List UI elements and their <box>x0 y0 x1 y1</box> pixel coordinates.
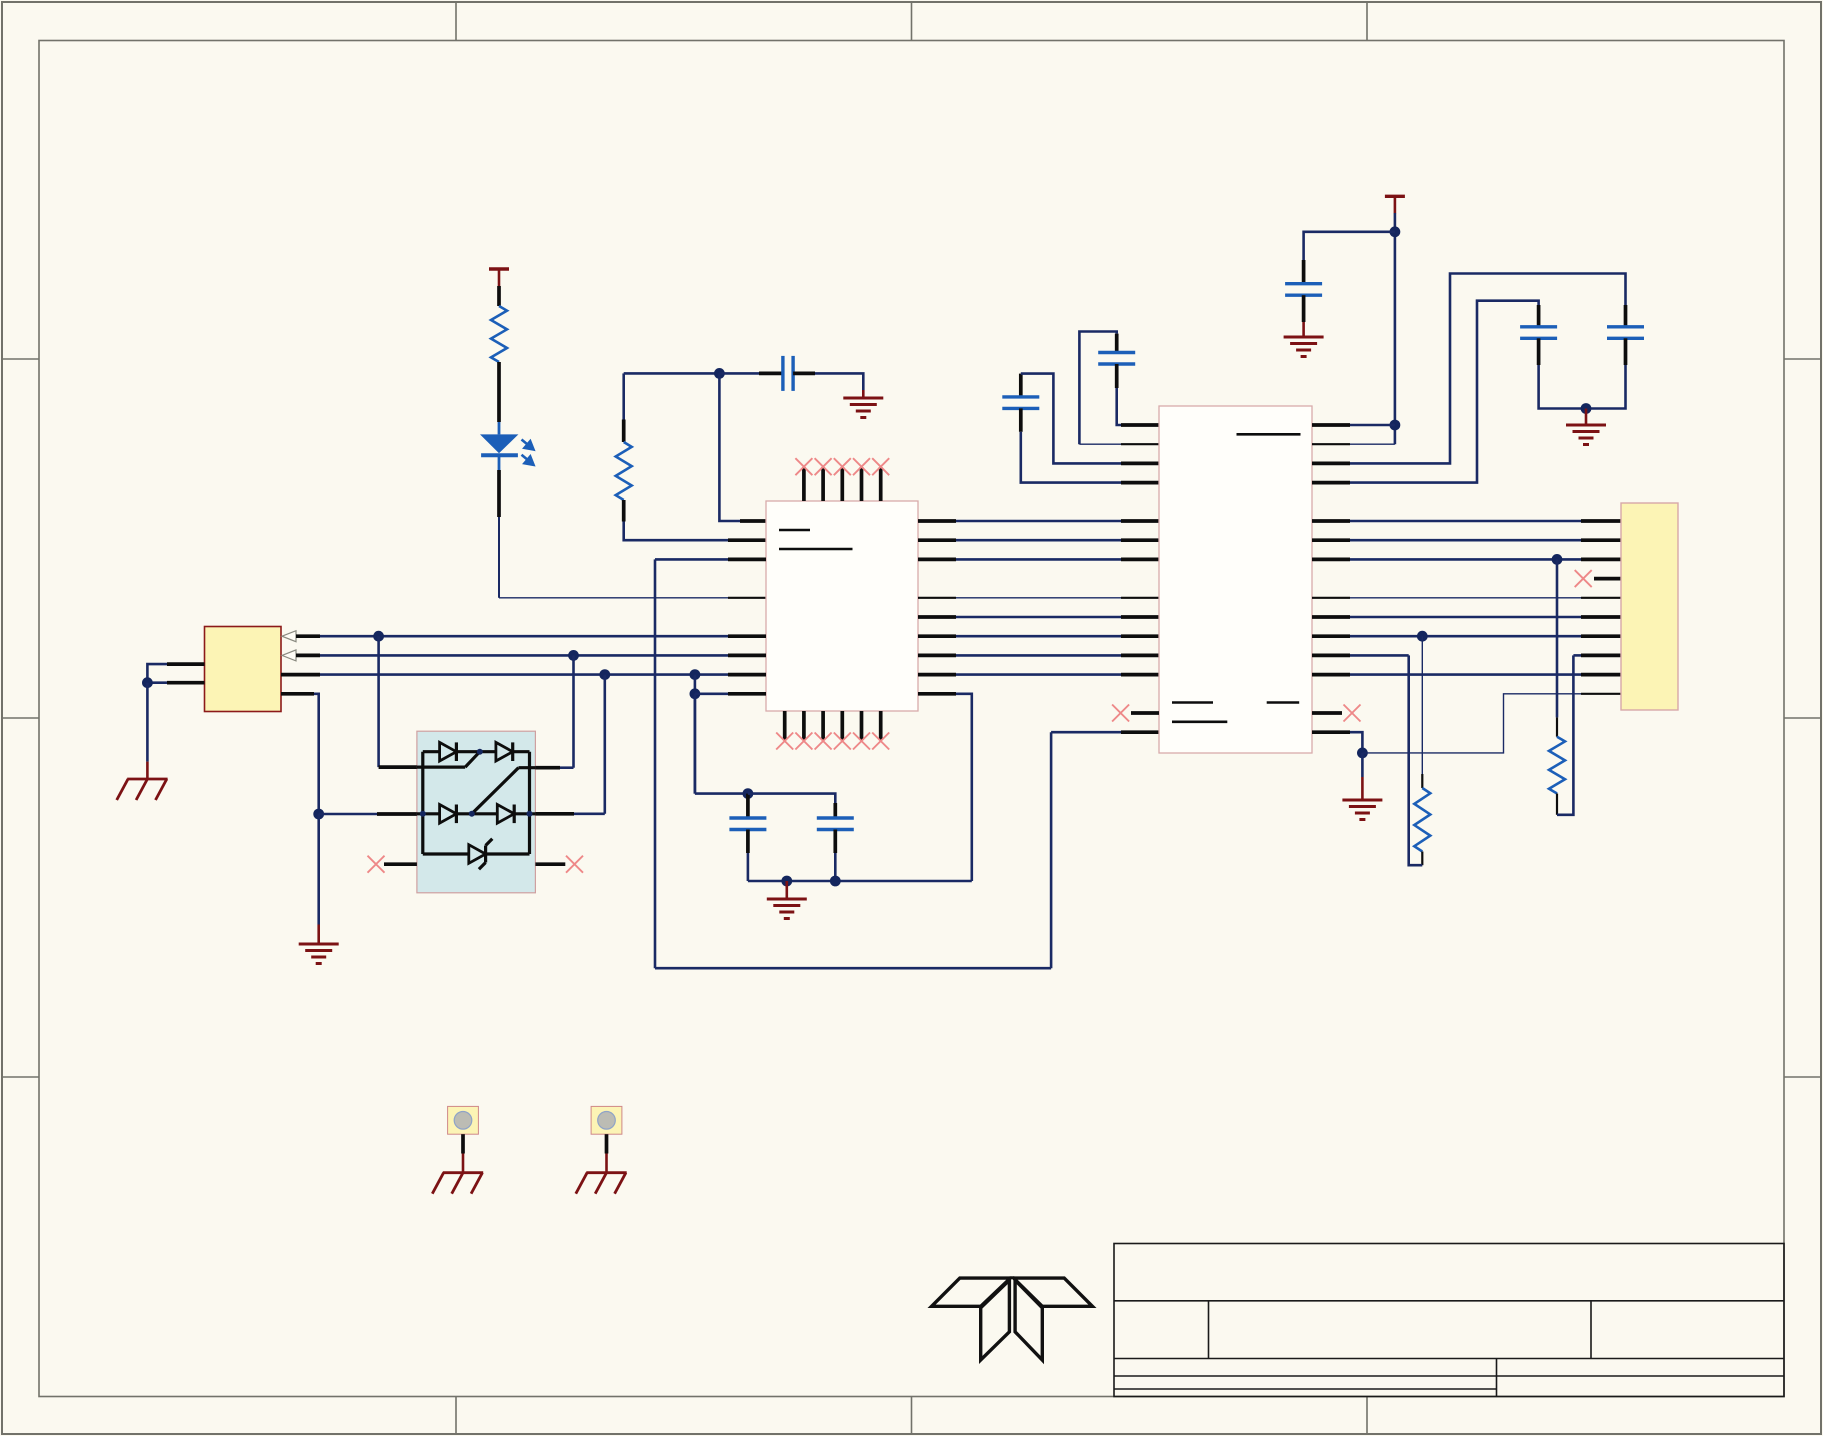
U1 internal overline 1 <box>779 529 810 532</box>
no-connect X ESD bottom-left <box>368 856 385 873</box>
no-connect X U2 left row15 <box>1112 705 1129 722</box>
pin stub C8 bottom <box>1302 295 1306 322</box>
junction node row3/row4 <box>690 669 701 680</box>
junction node row4 <box>690 688 701 699</box>
wire LED net vertical <box>498 517 500 598</box>
wire J2 row12 corner <box>1573 654 1581 657</box>
junction node row3/ESD <box>599 669 610 680</box>
J1 output arrow pin2 <box>282 650 296 661</box>
wire bus net 4 U1-U2 <box>956 597 1121 599</box>
pin stub U2 left bus1 <box>1121 519 1159 523</box>
wire row4 to U1 <box>695 692 728 695</box>
J1 pin stub row3 <box>281 673 320 677</box>
wire ESD top-right <box>560 766 574 769</box>
wire C8 gnd stem <box>1302 322 1305 337</box>
pin stub U2 left bus6 <box>1121 634 1159 638</box>
wire bus net 3 U1-U2 <box>956 558 1121 561</box>
junction node C2 bottom <box>830 876 841 887</box>
wire gnd stem row16 <box>1361 753 1364 777</box>
IC U2 body <box>1159 406 1312 753</box>
pin stub C2 bottom <box>833 830 837 854</box>
wire R3 bottom loop <box>1409 655 1423 865</box>
wire R2 vertical top <box>622 373 625 419</box>
wire net row9 U2-J2 <box>1350 597 1581 599</box>
chassis ground TP2 <box>576 1173 627 1194</box>
no-connect X bottom pin 3 <box>815 733 832 750</box>
pin stub C4 top <box>1019 374 1023 397</box>
wire net row7 vertical <box>654 559 657 968</box>
wire row3-row4 vertical <box>694 675 697 794</box>
wire U2 row1 to VCC <box>1350 424 1395 427</box>
pin stub R3 top <box>1421 774 1423 788</box>
wire ESD mid-right <box>574 812 605 815</box>
pin stub U2 left row1 <box>1121 423 1159 427</box>
pin stub U2 left bus7 <box>1121 654 1159 658</box>
ground GND2 <box>299 944 339 964</box>
wire R2 top corner <box>624 372 720 375</box>
wire U2 row4 loop <box>1350 301 1539 483</box>
wire row2 net to ESD <box>572 655 575 767</box>
U2 internal overline bottom-right <box>1267 701 1300 704</box>
wire LED anode stub <box>498 422 501 434</box>
pin stub U1 left row7 <box>728 558 766 562</box>
wire C6 to gnd rail <box>1539 365 1586 409</box>
wire TP2 stem <box>605 1154 608 1173</box>
pin stub U1 left pin2 <box>728 538 766 542</box>
wire TP1 stem <box>462 1154 465 1173</box>
pin stub U2 left bus4 <box>1121 597 1159 599</box>
pin stub C1 bottom <box>746 830 750 854</box>
wire net row10 U2-J2 <box>1350 616 1581 619</box>
pin stub U2 right row13 <box>1312 673 1350 677</box>
no-connect X J2 row8 <box>1575 570 1592 587</box>
pin stub U2 right row5 <box>1312 519 1350 523</box>
junction node row1/ESD <box>373 631 384 642</box>
wire C5 top loop <box>1079 332 1116 445</box>
wire R2 stub bottom <box>622 500 626 522</box>
wire R2 stub top <box>622 420 626 443</box>
power symbol VCC2 <box>1385 196 1405 213</box>
junction node row2/ESD <box>568 650 579 661</box>
no-connect X bottom pin 4 <box>834 733 851 750</box>
U2 internal overline bottom-left1 <box>1172 701 1213 704</box>
junction node xtal gnd <box>1581 403 1592 414</box>
J1 pin stub row2 <box>296 654 320 658</box>
pin stub U2 right row7 <box>1312 558 1350 562</box>
wire gnd stem xtal <box>1585 409 1588 426</box>
no-connect X top pin 2 <box>815 458 832 475</box>
pin stub U2 left row3 <box>1121 462 1159 466</box>
pin stub U1 left RXD <box>728 597 766 599</box>
junction node GND rail <box>781 876 792 887</box>
no-connect X U2 right row15 <box>1344 705 1361 722</box>
pin stub ESD bottom-left NC <box>384 862 417 866</box>
pin stub U2 right row12 <box>1312 654 1350 658</box>
capacitor C4 <box>1002 397 1039 409</box>
pin stub U2 right row2 <box>1312 443 1350 445</box>
wire shield down <box>146 683 149 762</box>
pin stub U2 right row15 NC <box>1312 711 1342 715</box>
wire R1 to LED <box>497 362 501 422</box>
ground GND1 <box>843 398 883 418</box>
connector J2 body <box>1621 503 1678 710</box>
wire gnd stem J1 row4 <box>317 925 320 945</box>
pin stub U1 right bus4 <box>918 597 956 599</box>
pin stub J2 row12 <box>1581 654 1621 658</box>
wire C4 bottom loop <box>1021 432 1121 483</box>
pin stub C3 right <box>793 372 815 376</box>
wire TP1 stub <box>461 1134 465 1153</box>
wire TP2 stub <box>605 1134 609 1153</box>
wire U2 row12 to R3 <box>1350 654 1409 657</box>
pin stub U2 left row4 <box>1121 481 1159 485</box>
pin stub J2 row9 <box>1581 597 1621 599</box>
pin stub U2 left bus2 <box>1121 538 1159 542</box>
chassis ground TP1 <box>432 1173 483 1194</box>
J1 left pin stub B <box>167 681 205 685</box>
wire C5 loop to U2 row2 <box>1079 443 1121 445</box>
capacitor C2 <box>817 818 854 830</box>
pin stub C8 top <box>1302 260 1306 284</box>
pin stub R4 top <box>1556 717 1558 736</box>
pin stub U2 left row15 NC <box>1131 711 1159 715</box>
wire J1 left B <box>147 681 167 684</box>
wire VCC2 to C8 <box>1304 232 1395 260</box>
capacitor C3 <box>783 356 793 391</box>
ground GND6 <box>1342 800 1382 820</box>
capacitor C1 <box>729 818 766 830</box>
wire GND stem C3 <box>862 390 865 398</box>
ESD array D1 internals <box>417 742 536 869</box>
ground GND5 <box>1566 425 1606 445</box>
wire C7 to gnd rail <box>1586 365 1626 409</box>
pin stub U2 left bus3 <box>1121 558 1159 562</box>
pin stub ESD mid-left <box>377 812 417 816</box>
wire ESD mid-left <box>319 813 377 816</box>
no-connect X top pin 3 <box>834 458 851 475</box>
pin stub U1 right bus5 <box>918 615 956 619</box>
wire net row6 U2-J2 <box>1350 539 1581 542</box>
pin stub U2 right row11 <box>1312 634 1350 638</box>
pin stub U1 right bus6 <box>918 634 956 638</box>
resistor R4 <box>1549 737 1565 794</box>
J1 left pin stub A <box>167 662 205 666</box>
junction node VCC2/C8 <box>1390 226 1401 237</box>
pin stub U2 right row3 <box>1312 462 1350 466</box>
wire LED net to U1 pin row <box>499 597 728 599</box>
U1 top no-connect pins <box>804 467 881 501</box>
wire bus net 7 U1-U2 <box>956 654 1121 657</box>
wire net row11 U2-J2 <box>1350 635 1581 638</box>
J1 pin stub row1 <box>296 634 320 638</box>
no-connect X bottom pin 6 <box>872 733 889 750</box>
pin stub C3 left <box>759 372 783 376</box>
pin stub U1 right bus2 <box>918 538 956 542</box>
wire bottom net up <box>1050 732 1053 968</box>
wire net row7 U2-J2 <box>1350 558 1581 561</box>
pin stub R3 bottom <box>1421 852 1423 866</box>
power symbol VCC1 <box>489 269 509 286</box>
pin stub C2 top <box>833 803 837 818</box>
wire R3 top <box>1421 636 1423 774</box>
pin stub ESD bottom-right NC <box>535 862 565 866</box>
wire gnd stem caps <box>785 881 788 899</box>
pin stub U1 left row12 <box>728 654 766 658</box>
pin stub C5 bottom <box>1115 364 1119 388</box>
ground GND4 <box>1284 337 1324 357</box>
pin stub U2 right row10 <box>1312 615 1350 619</box>
wire caps bottom rail <box>748 880 972 883</box>
U2 internal overline top <box>1237 433 1301 436</box>
pin stub U1 left row13 <box>728 673 766 677</box>
pin stub U2 left bus5 <box>1121 615 1159 619</box>
wire R4 top <box>1556 559 1559 717</box>
capacitor C5 <box>1098 353 1135 365</box>
wire J1 left A corner <box>147 664 167 683</box>
no-connect X bottom pin 2 <box>795 733 812 750</box>
pin stub U2 right row6 <box>1312 538 1350 542</box>
pin stub U1 right bus3 <box>918 558 956 562</box>
pin stub ESD mid-right <box>535 812 574 816</box>
pin stub C6 bottom <box>1537 338 1541 365</box>
wire net row5 U2-J2 <box>1350 520 1581 523</box>
resistor R3 <box>1414 788 1430 852</box>
pin stub U2 left row2 <box>1121 443 1159 445</box>
resistor R1 <box>491 306 507 362</box>
test point TP1 pad <box>448 1106 479 1134</box>
U1 bottom no-connect pins <box>785 711 881 740</box>
wire LED cathode down <box>497 470 501 517</box>
wire net row7 corner <box>655 558 728 561</box>
wire net row13 U2-J2 <box>1350 673 1581 676</box>
pin stub C1 top <box>746 794 750 818</box>
pin stub U2 right row16 <box>1312 730 1350 734</box>
no-connect X bottom pin 1 <box>776 733 793 750</box>
title block <box>1114 1244 1784 1397</box>
pin stub C5 top <box>1115 334 1119 353</box>
wire U2 row2 to VCC <box>1350 443 1395 445</box>
LED D2 <box>480 434 534 470</box>
wire net row2 J1-U1 <box>320 654 728 657</box>
J1 pin stub row4 <box>281 692 314 696</box>
ground GND3 <box>767 899 807 919</box>
wire thin row16 to J2 <box>1362 694 1581 753</box>
wire J1 row4 corner down <box>314 694 319 814</box>
wire R2 to U1 corner <box>624 522 728 541</box>
wire VCC vert to U1 pin1 <box>719 373 740 521</box>
wire bus net 8 U1-U2 <box>956 673 1121 676</box>
wire row3 net to ESD <box>603 675 606 814</box>
pin stub U1 right bus8 <box>918 673 956 677</box>
wire bottom net to U2 <box>1051 731 1121 734</box>
J1 output arrow pin1 <box>282 631 296 642</box>
pin stub U2 right row4 <box>1312 481 1350 485</box>
wire power to R1 <box>497 286 501 306</box>
wire net row1 J1-U1 <box>320 635 728 638</box>
pin stub C7 bottom <box>1624 338 1628 365</box>
resistor R2 <box>616 442 632 500</box>
pin stub U2 right row9 <box>1312 597 1350 599</box>
no-connect X top pin 4 <box>853 458 870 475</box>
ESD array D1 body <box>417 731 536 893</box>
pin stub U2 left row16 <box>1121 730 1159 734</box>
no-connect X ESD bottom-right <box>566 856 583 873</box>
wire C5 bottom loop <box>1117 388 1121 425</box>
wire C3 left <box>719 372 759 375</box>
junction node ESD mid-left <box>313 809 324 820</box>
no-connect X top pin 1 <box>795 458 812 475</box>
wire C2 bottom <box>834 853 837 881</box>
wire caps top rail right <box>748 794 835 803</box>
pin stub J2 row11 <box>1581 634 1621 638</box>
pin stub U1 right bus7 <box>918 654 956 658</box>
pin stub U2 left bus8 <box>1121 673 1159 677</box>
wire C1 bottom <box>747 853 750 881</box>
wire rail up to U1 row14 <box>956 694 972 881</box>
wire bus net 5 U1-U2 <box>956 616 1121 619</box>
capacitor C6 <box>1520 327 1557 339</box>
U2 internal overline bottom-left2 <box>1172 720 1227 723</box>
wire C4 top loop <box>1021 374 1121 464</box>
pin stub R4 bottom <box>1556 794 1558 815</box>
pin stub J2 row6 <box>1581 538 1621 542</box>
pin stub J2 row14 <box>1581 693 1621 695</box>
junction node R4 top <box>1552 554 1563 565</box>
wire J1 row4 gnd down <box>317 814 320 925</box>
pin stub U1 right bus1 <box>918 519 956 523</box>
pin stub J2 row7 <box>1581 558 1621 562</box>
pin stub C6 top <box>1537 305 1541 327</box>
pin stub C7 top <box>1624 305 1628 327</box>
pin stub U1 left row11 <box>728 634 766 638</box>
wire U2 row16 corner <box>1350 732 1362 753</box>
wire bottom long net <box>655 967 1051 970</box>
wire C3 to GND corner <box>815 373 863 390</box>
capacitor C8 <box>1285 284 1322 296</box>
wire bus net 2 U1-U2 <box>956 539 1121 542</box>
no-connect X bottom pin 5 <box>853 733 870 750</box>
wire bus net 6 U1-U2 <box>956 635 1121 638</box>
pin stub ESD left top <box>379 765 417 769</box>
U1 internal overline 2 <box>779 548 853 551</box>
test point TP2 pad <box>591 1106 622 1134</box>
pin stub U1 right row14 <box>918 692 956 696</box>
pin stub ESD top-right <box>535 766 560 770</box>
wire row1 net to ESD <box>377 636 380 767</box>
chassis ground J1 <box>117 779 168 800</box>
pin stub C4 bottom <box>1019 408 1023 431</box>
pin stub U1 left row14 <box>728 692 766 696</box>
pin stub J2 row13 <box>1581 673 1621 677</box>
wire gnd stem row16b <box>1361 777 1364 800</box>
wire bus net 1 U1-U2 <box>956 520 1121 523</box>
wire R4 bottom loop <box>1557 655 1573 814</box>
capacitor C7 <box>1607 327 1644 339</box>
wire U2 row3 loop <box>1350 274 1626 464</box>
wire net row3 J1-U1 <box>320 673 728 676</box>
junction node R3 top <box>1417 631 1428 642</box>
junction node VCC2/row1 <box>1390 420 1401 431</box>
pin stub U1 left pin1 <box>740 519 766 523</box>
connector J1 body <box>205 627 282 712</box>
pin stub J2 row8 NC <box>1594 577 1621 581</box>
junction node row16 gnd <box>1357 748 1368 759</box>
pin stub J2 row10 <box>1581 615 1621 619</box>
pin stub U2 right row1 <box>1312 423 1350 427</box>
IC U1 body <box>766 501 918 711</box>
junction node J1 shield <box>142 677 153 688</box>
company logo <box>932 1278 1093 1360</box>
junction node R2/C3 <box>714 368 725 379</box>
wire shield stem <box>146 762 149 779</box>
no-connect X top pin 5 <box>872 458 889 475</box>
junction node C1 top <box>743 788 754 799</box>
wire VCC2 vertical <box>1394 213 1397 444</box>
wire caps top rail left <box>695 792 748 795</box>
wire row4 to caps vert <box>694 694 697 794</box>
pin stub J2 row5 <box>1581 519 1621 523</box>
